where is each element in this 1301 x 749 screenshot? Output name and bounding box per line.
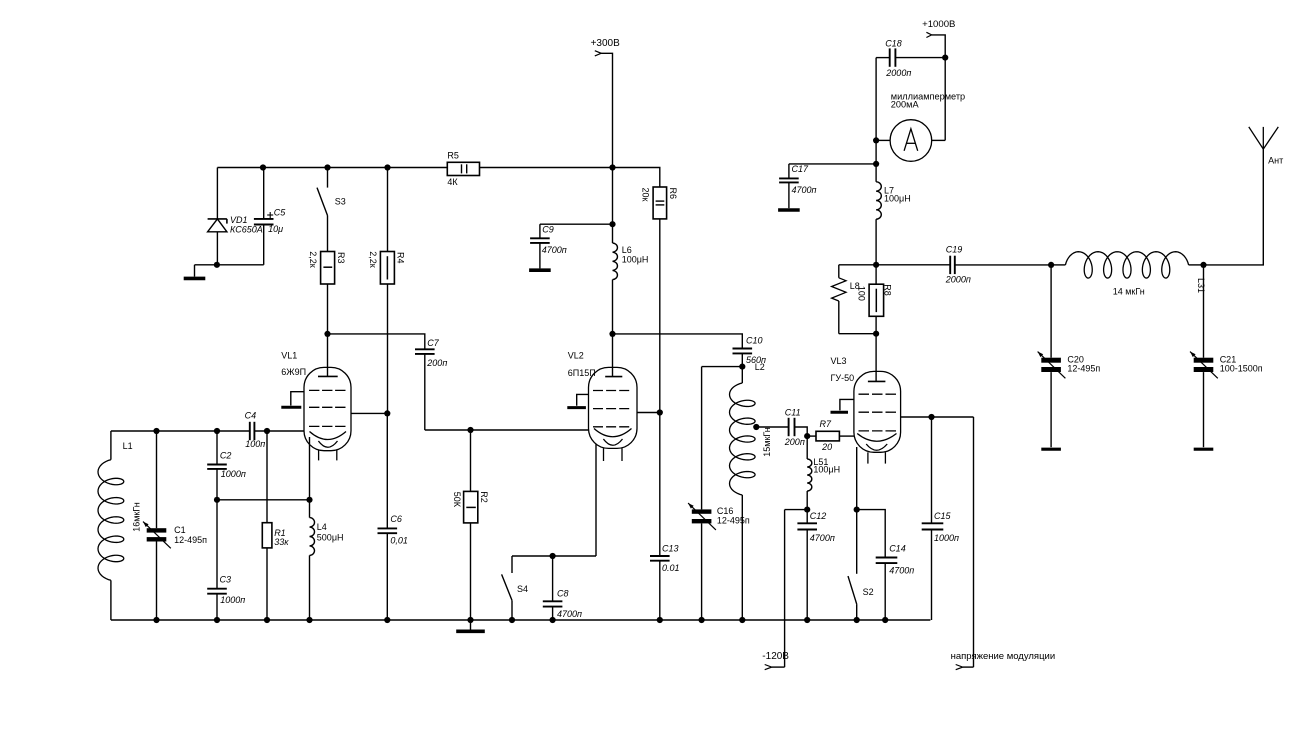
svg-text:C7: C7 [427,338,439,348]
capacitor C19 2000p [945,244,1051,284]
node antenna/C21 junction [1200,262,1206,268]
node C2 top [214,428,220,434]
wire VD1 top lead [216,168,218,219]
wire +300V down to C9 node [612,168,614,225]
inductor L51 100uH [807,436,840,510]
node VL2 screen/C13 junction [657,409,663,415]
svg-text:4700п: 4700п [792,185,817,195]
node C1 top [153,428,159,434]
node L51/C12/-120V junction [804,507,810,513]
svg-text:C18: C18 [885,38,902,48]
svg-text:VL2: VL2 [568,351,584,361]
svg-text:R8: R8 [883,284,893,296]
svg-text:12-495п: 12-495п [174,535,207,545]
wire meter node down to C17 node [875,140,877,164]
antenna [1249,127,1283,166]
svg-text:-120В: -120В [762,651,789,662]
variable capacitor C20 12-495p [1038,265,1101,447]
node rail C3 [214,617,220,623]
node C10/L2 junction [739,364,745,370]
svg-text:2,2к: 2,2к [368,251,378,268]
svg-text:0,01: 0,01 [390,536,408,546]
capacitor C9 4700p [530,224,612,255]
node VL3 cathode junction [854,507,860,513]
svg-text:S3: S3 [335,197,346,207]
ground VL2 grid2 [567,406,586,409]
svg-text:20: 20 [821,442,832,452]
wire L2 tap to C11 [754,426,789,428]
resistor R1 33k [262,431,289,548]
node C4/R1 junction [264,428,270,434]
node rail C1 [153,617,159,623]
svg-text:ГУ-50: ГУ-50 [831,373,855,383]
svg-text:100: 100 [857,286,867,301]
node C20 junction [1048,262,1054,268]
svg-text:C15: C15 [934,511,952,521]
wire top rail left of R5 [217,167,447,169]
node VD1/C5/ground junction [214,262,220,268]
wire C7 bottom to VL2 grid [425,429,589,431]
wire bottom ground rail [111,619,931,621]
svg-text:4К: 4К [447,177,458,187]
svg-text:VL3: VL3 [831,356,847,366]
variable capacitor C16 12-495p [688,503,750,620]
ground below C21 [1194,448,1214,451]
svg-text:C14: C14 [889,544,906,554]
svg-text:14 мкГн: 14 мкГн [1113,286,1145,296]
wire C4 to VL1 grid [254,430,304,432]
capacitor C5 10u electrolytic [254,168,286,265]
wire VL2 cathode lead [595,444,597,556]
wire VL1 cathode lead [309,437,311,500]
svg-text:S2: S2 [863,587,874,597]
wire S3 to R3 [327,216,329,252]
switch S2 [848,510,874,620]
node VL2 anode junction [609,331,615,337]
resistor R5 [447,162,479,175]
svg-text:100-1500п: 100-1500п [1220,363,1263,373]
switch S4 [502,556,528,620]
ground VL1 grid2 [281,406,301,409]
node rail C6 [384,617,390,623]
svg-text:100п: 100п [245,439,265,449]
wire VL3 cathode lead [856,447,858,510]
svg-text:L1: L1 [123,441,133,451]
capacitor C11 200p [784,407,805,447]
svg-text:2000п: 2000п [885,68,911,78]
node C8 top junction [550,553,556,559]
capacitor C17 4700p [779,164,876,195]
resistor R3 2.2k [308,251,346,284]
svg-text:0.01: 0.01 [662,563,680,573]
node C17 junction [873,161,879,167]
svg-text:C8: C8 [557,588,569,598]
inductor L8 parasitic choke [832,265,877,334]
wire R4 bottom to screen node [387,284,389,413]
svg-text:напряжение модуляции: напряжение модуляции [951,651,1056,662]
tube VL1 6Zh9P [281,334,351,461]
wire VL2 grid2 step to ground [577,394,589,405]
svg-text:200мА: 200мА [891,100,920,110]
node rail C12 [804,617,810,623]
wire cathode node to C14 [857,510,886,558]
resistor R4 2.2k [368,168,406,285]
svg-text:500μН: 500μН [317,532,344,542]
svg-text:4700п: 4700п [810,533,835,543]
svg-text:C5: C5 [274,208,286,218]
node C18 right junction [942,55,948,61]
wire C11 to grid node [795,427,808,436]
resistor R6 20k [641,187,678,219]
power +300V connector [591,38,621,168]
capacitor C8 4700p [543,556,582,620]
svg-text:VD1: VD1 [230,215,248,225]
node R4/VL1-screen/C6 junction [384,410,390,416]
capacitor C18 2000p [876,38,945,78]
resistor R2 50K grid leak [452,430,489,523]
svg-text:C16: C16 [717,506,734,516]
capacitor C14 4700p [876,544,915,621]
svg-text:4700п: 4700п [542,245,567,255]
wire VL3 grid2 step to ground [840,399,854,410]
svg-text:C12: C12 [810,511,827,521]
svg-text:2000п: 2000п [945,274,971,284]
node rail C16 [699,617,705,623]
wire C10 node to C16 branch [702,366,743,368]
node C15 junction [928,414,934,420]
svg-text:R6: R6 [668,188,678,200]
svg-text:R7: R7 [820,419,832,429]
node rail R1 [264,617,270,623]
svg-text:L31: L31 [1196,278,1206,293]
wire VL2 anode to C10 [613,334,743,349]
svg-text:4700п: 4700п [889,565,914,575]
svg-text:1000п: 1000п [934,533,959,543]
svg-text:+1000В: +1000В [922,19,955,30]
node top rail / C5 branch [260,164,266,170]
switch S3 [317,168,346,216]
svg-text:15мкГн: 15мкГн [762,427,772,457]
node R3/VL1-anode/C7 junction [324,331,330,337]
svg-text:12-495п: 12-495п [1067,363,1100,373]
tube VL3 GU-50 [831,334,901,464]
svg-text:1000п: 1000п [221,469,246,479]
wire L7 node to C19 [876,264,950,266]
node R8 bottom / VL3 anode junction [873,331,879,337]
svg-text:C1: C1 [174,525,186,535]
power -120V connector [762,651,789,670]
svg-text:100μН: 100μН [884,194,911,204]
capacitor C4 100p [245,410,266,449]
svg-text:10μ: 10μ [268,224,283,234]
svg-text:20к: 20к [641,188,651,202]
svg-text:12-495п: 12-495п [717,515,750,525]
wire VL2 screen lead [637,412,660,414]
wire cathode to S4/C8 [512,555,596,557]
wire ground-node horizontal [195,264,264,266]
svg-text:6Ж9П: 6Ж9П [281,367,306,377]
svg-text:L4: L4 [317,522,327,532]
variable capacitor C1 12-495p [143,431,207,620]
svg-text:C19: C19 [946,244,963,254]
svg-text:200п: 200п [426,358,447,368]
svg-text:R5: R5 [447,151,459,161]
wire modulation voltage line [973,417,975,667]
wire L31 to C21 [1196,265,1206,358]
node rail S2 [854,617,860,623]
svg-text:16мкГн: 16мкГн [131,502,141,532]
node rail L4 [306,617,312,623]
svg-text:C10: C10 [746,335,763,345]
wire node to C7 top [328,334,425,349]
wire VL1 grid2 step to ground [291,392,304,406]
svg-text:КС650А: КС650А [230,224,263,234]
wire C16 branch down [701,367,703,510]
inductor L4 500uH [310,500,344,620]
svg-text:100μН: 100μН [622,255,649,265]
wire R6 bottom to VL2 screen node [659,219,661,413]
ground main below rail [470,620,472,630]
svg-text:Ант: Ант [1268,156,1283,166]
capacitor C3 1000p [207,500,245,620]
inductor L6 100uH [613,224,649,334]
milliammeter 200mA [876,92,965,162]
node rail C8 [550,617,556,623]
wire C2-C3 node to L4 node [217,499,310,501]
svg-text:C4: C4 [245,410,257,420]
node meter left junction [873,137,879,143]
ground VL3 grid2 [831,411,849,414]
svg-text:200п: 200п [784,437,805,447]
capacitor C6 0.01 [378,413,408,620]
wire R3 bottom to VL1 anode node [327,284,329,334]
svg-text:C3: C3 [220,575,232,585]
svg-text:R3: R3 [336,252,346,264]
svg-text:50К: 50К [452,492,462,508]
ground below C9 [539,243,541,269]
svg-text:C17: C17 [792,164,810,174]
svg-text:C9: C9 [542,225,554,235]
wire C18 left down to meter node [875,58,877,141]
node L7/C19/L8 junction [873,262,879,268]
ground below VD1 [194,265,196,277]
inductor 14uH pi coil [1051,252,1189,297]
svg-text:33к: 33к [274,537,289,547]
node top rail / +300V feed [609,164,615,170]
inductor L7 100uH [876,164,911,265]
node C2/C3 junction [214,497,220,503]
capacitor C13 0.01 [650,413,680,621]
wire R2 bottom to ground rail [470,523,472,620]
svg-text:1000п: 1000п [220,595,245,605]
resistor R7 20 [807,419,854,452]
capacitor C2 1000p [207,431,246,500]
wire VL3 screen to modulation line [901,416,974,418]
node L4/VL1-cathode junction [306,497,312,503]
node L2 tap [753,424,759,430]
svg-text:C6: C6 [390,514,402,524]
svg-text:2,2к: 2,2к [308,251,318,268]
resistor R8 [869,265,892,334]
svg-text:6П15П: 6П15П [568,368,596,378]
svg-text:C2: C2 [220,450,232,460]
svg-text:+300В: +300В [591,38,621,49]
capacitor C10 560p [733,335,767,366]
node rail C13 [657,617,663,623]
tube VL2 6P15P [568,334,637,461]
inductor L2 15uH tank coil [730,362,773,620]
svg-text:S4: S4 [517,584,528,594]
wire L1 top wire [111,430,250,432]
node rail L2 [739,617,745,623]
svg-text:C13: C13 [662,543,679,553]
svg-text:L2: L2 [755,362,765,372]
wire antenna feed [1204,149,1264,265]
capacitor C12 4700p [797,510,834,620]
variable capacitor C21 100-1500p [1190,352,1263,448]
svg-text:C11: C11 [785,407,801,417]
node C9 junction [609,221,615,227]
node C11/R7/L51 junction [804,433,810,439]
wire coil to antenna node [1189,264,1204,266]
svg-text:R2: R2 [479,491,489,503]
wire top rail right of R5 [480,167,613,169]
wire -120V feed [785,509,808,511]
wire R1 bottom to rail [266,548,268,620]
ground below C17 [788,182,790,208]
svg-text:VL1: VL1 [281,350,297,360]
node rail R2 [467,617,473,623]
svg-text:R4: R4 [396,252,406,264]
zener diode VD1 КС650А [208,215,263,235]
node top rail / R4 branch [384,164,390,170]
svg-text:100μН: 100μН [813,465,840,475]
capacitor C7 200p [415,338,447,430]
wire VL1 screen lead to R4 node [351,412,387,414]
svg-text:4700п: 4700п [557,609,582,619]
inductor L1 16uH [98,431,141,620]
ground below C20 [1041,448,1061,451]
node top rail / S3-R3 branch [324,164,330,170]
node rail S4 [509,617,515,623]
wire VD1 anode to ground node [216,232,218,265]
modulation voltage connector [951,651,1056,670]
wire to R6 top [613,168,660,188]
node C7/R2/VL2-grid junction [467,427,473,433]
capacitor C15 1000p [922,417,959,620]
node rail C14 [882,617,888,623]
power +1000V connector [922,19,955,140]
